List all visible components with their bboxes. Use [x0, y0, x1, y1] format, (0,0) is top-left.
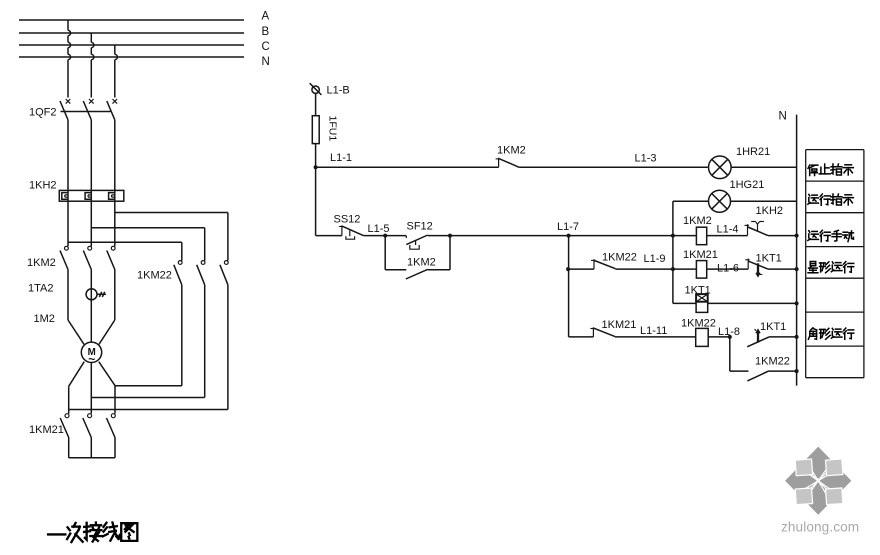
svg-text:C: C [262, 41, 270, 53]
svg-text:L1-3: L1-3 [635, 153, 657, 165]
svg-text:1KT1: 1KT1 [756, 253, 782, 265]
svg-text:L1-7: L1-7 [557, 221, 579, 233]
svg-text:L1-8: L1-8 [718, 326, 740, 338]
svg-text:1KM2: 1KM2 [27, 257, 56, 269]
svg-text:1KH2: 1KH2 [29, 180, 57, 192]
svg-text:N: N [779, 111, 787, 123]
svg-text:1KM22: 1KM22 [602, 252, 637, 264]
svg-text:L1-6: L1-6 [717, 263, 739, 275]
svg-text:1KM21: 1KM21 [602, 319, 637, 331]
svg-text:1KM22: 1KM22 [755, 356, 790, 368]
svg-text:1KT1: 1KT1 [760, 321, 786, 333]
svg-text:1FU1: 1FU1 [327, 116, 339, 142]
svg-text:1KM22: 1KM22 [681, 318, 716, 330]
svg-text:L1-5: L1-5 [368, 223, 390, 235]
svg-text:1KH2: 1KH2 [756, 205, 784, 217]
svg-text:1HR21: 1HR21 [736, 146, 770, 158]
svg-text:L1-4: L1-4 [717, 224, 739, 236]
svg-text:L1-1: L1-1 [330, 152, 352, 164]
svg-text:1TA2: 1TA2 [28, 283, 53, 295]
svg-text:1KM2: 1KM2 [497, 145, 526, 157]
svg-text:L1-9: L1-9 [644, 253, 666, 265]
svg-text:1KT1: 1KT1 [685, 285, 711, 297]
svg-text:1KM21: 1KM21 [683, 249, 718, 261]
svg-text:zhulong.com: zhulong.com [781, 519, 859, 534]
svg-text:1KM22: 1KM22 [137, 270, 172, 282]
svg-text:L1-B: L1-B [327, 85, 350, 97]
svg-text:B: B [262, 26, 270, 38]
svg-text:1KM21: 1KM21 [29, 424, 64, 436]
svg-text:1KM2: 1KM2 [683, 215, 712, 227]
svg-text:1KM2: 1KM2 [407, 257, 436, 269]
svg-text:SS12: SS12 [334, 214, 361, 226]
svg-text:SF12: SF12 [407, 221, 433, 233]
svg-text:L1-11: L1-11 [640, 325, 667, 337]
svg-text:1HG21: 1HG21 [730, 179, 765, 191]
svg-text:A: A [262, 11, 270, 23]
svg-text:1M2: 1M2 [34, 313, 55, 325]
svg-text:N: N [262, 56, 270, 68]
svg-text:1QF2: 1QF2 [29, 107, 57, 119]
